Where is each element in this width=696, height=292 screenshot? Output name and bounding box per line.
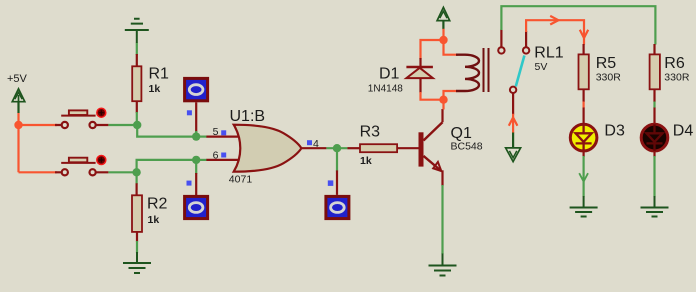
wire pin5 green bit [196, 136, 207, 138]
relay RL1 coil [456, 55, 479, 91]
pin 5 stub [206, 136, 240, 138]
svg-text:D1: D1 [379, 66, 400, 83]
wire D4 down green [653, 156, 655, 197]
LED D4 (off) [641, 123, 693, 158]
wire D3 down green with arrow [579, 156, 588, 197]
relay contact left (NC) [498, 47, 504, 53]
pin 6 stub [206, 159, 240, 161]
node junction R1/button1 [133, 121, 141, 129]
svg-text:D4: D4 [673, 123, 694, 140]
wire node to pin6 row [137, 160, 197, 172]
diode D1 [368, 58, 433, 95]
svg-text:5: 5 [213, 126, 219, 138]
wire output green [326, 147, 347, 149]
ground (below Q1) [429, 254, 457, 276]
node junction R2/button2 [132, 168, 140, 176]
svg-text:1k: 1k [148, 214, 160, 226]
svg-text:330R: 330R [596, 72, 622, 84]
wire R2 bottom green [136, 241, 138, 253]
svg-text:4071: 4071 [229, 174, 253, 186]
logic probe P2 [185, 160, 208, 219]
wire button2 to R2 node (green) [108, 171, 136, 173]
svg-text:R2: R2 [147, 196, 168, 213]
svg-text:5V: 5V [535, 61, 548, 73]
wire pin6 green bit [196, 159, 207, 161]
ground (below D3) [570, 196, 598, 217]
wire relay bottom orange [421, 91, 457, 110]
relay blade (cyan) [516, 56, 525, 87]
svg-text:1N4148: 1N4148 [368, 84, 403, 95]
push button 1 [61, 108, 106, 128]
svg-text:D3: D3 [604, 123, 625, 140]
pin 4 output stub [301, 147, 326, 149]
wire node to pin5 row [137, 125, 196, 137]
node junction probe1/pin5 [192, 132, 200, 140]
wire Q1 emitter green [441, 185, 443, 254]
wire R6-D4 green bit [653, 102, 655, 109]
svg-text:BC548: BC548 [451, 141, 483, 153]
svg-text:+5V: +5V [7, 73, 28, 85]
node relay top junction [439, 36, 447, 44]
LED D3 (lit) [570, 123, 625, 158]
svg-text:R5: R5 [596, 55, 617, 72]
wire top rail green [501, 6, 655, 44]
transistor Q1 [419, 109, 483, 186]
wire R1 pins dark red [136, 54, 138, 113]
resistor R3 [347, 147, 360, 149]
svg-text:RL1: RL1 [534, 45, 563, 62]
node junction probe2/pin6 [192, 156, 200, 164]
logic probe P1 [185, 78, 208, 136]
wire R1 top green [136, 43, 138, 55]
wire button1 to R1 node (green) [108, 124, 137, 126]
svg-text:1k: 1k [360, 155, 372, 167]
ground arrow (relay common) [506, 133, 521, 162]
wire relay top orange [421, 29, 459, 59]
relay core lines [484, 48, 489, 92]
ground (flipped, above R1) [125, 19, 149, 43]
svg-text:R1: R1 [149, 66, 170, 83]
wire common orange with up arrow [509, 114, 518, 133]
resistor R1 [132, 66, 141, 101]
wire R1 bottom green [136, 112, 138, 125]
power arrow (relay supply) [437, 7, 450, 29]
ground (below D4) [641, 196, 669, 217]
resistor R5 [582, 44, 584, 54]
wire R2 top green [136, 172, 138, 184]
wire NO contact to R5 orange with arrows [526, 16, 588, 45]
svg-text:U1:B: U1:B [230, 108, 266, 125]
svg-text:Q1: Q1 [451, 125, 472, 142]
svg-text:1k: 1k [149, 83, 161, 95]
push button 2 [61, 156, 106, 176]
wire +5V rail (orange) [19, 113, 58, 173]
relay common pole [510, 87, 516, 93]
node junction output/probe3 [333, 144, 341, 152]
svg-text:330R: 330R [664, 72, 690, 84]
wire button2 leads (dark red) [55, 171, 108, 173]
wire button1 leads (dark red) [55, 124, 108, 126]
OR gate U1:B [234, 125, 302, 172]
svg-text:R6: R6 [664, 55, 685, 72]
relay contact right (NO) [523, 47, 529, 53]
ground (below R2) [123, 252, 151, 273]
resistor R6 [653, 44, 655, 54]
power +5V arrow symbol [12, 89, 25, 113]
svg-text:R3: R3 [360, 124, 381, 141]
wire R2 pins dark red [136, 183, 139, 242]
wire R5-D3 orange bit [582, 102, 584, 109]
node +5V junction [14, 121, 22, 129]
svg-text:4: 4 [313, 138, 319, 150]
resistor R2 [132, 195, 142, 232]
logic probe P3 [326, 148, 349, 218]
svg-text:6: 6 [213, 149, 219, 161]
node relay bottom junction [439, 96, 447, 104]
